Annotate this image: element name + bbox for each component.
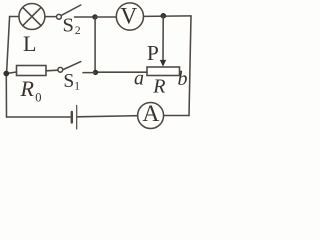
- wire mid vertical branch: [94, 17, 96, 72]
- svg-text:R: R: [152, 76, 165, 98]
- svg-text:a: a: [134, 68, 144, 90]
- svg-text:S: S: [63, 14, 74, 36]
- lamp L: [19, 4, 45, 30]
- wiper arm P: [162, 16, 164, 61]
- switch S2: [57, 14, 62, 19]
- voltmeter V: [116, 3, 143, 30]
- wire voltmeter to corner: [144, 15, 192, 18]
- wire top-left to lamp: [10, 16, 19, 18]
- rheostat R body: [147, 67, 180, 76]
- svg-text:R: R: [20, 76, 35, 101]
- wire battery to ammeter: [77, 116, 137, 117]
- svg-text:V: V: [120, 4, 137, 30]
- wire bottom-left to battery: [7, 116, 71, 118]
- svg-text:b: b: [178, 68, 188, 90]
- wire left vertical: [6, 17, 9, 118]
- svg-text:2: 2: [75, 25, 81, 37]
- svg-text:1: 1: [74, 81, 80, 93]
- node junction top: [92, 14, 97, 19]
- node junction left: [3, 71, 9, 77]
- wire ammeter to right corner: [164, 115, 189, 117]
- node junction wiper: [161, 13, 167, 19]
- switch S1: [83, 72, 96, 74]
- battery cell: [71, 112, 73, 123]
- wire lamp to S2: [45, 16, 57, 18]
- ammeter A: [138, 103, 164, 129]
- resistor R0 body: [17, 66, 47, 76]
- wire right vertical: [189, 16, 191, 116]
- svg-text:P: P: [147, 41, 159, 65]
- node junction mid: [93, 70, 98, 75]
- svg-text:S: S: [63, 71, 74, 92]
- svg-text:L: L: [23, 31, 36, 56]
- wire junction to voltmeter: [95, 16, 116, 18]
- wire R0 to left junction: [6, 72, 16, 74]
- svg-text:A: A: [142, 101, 159, 127]
- wire rheostat to mid junction: [96, 71, 148, 73]
- svg-text:0: 0: [35, 90, 41, 104]
